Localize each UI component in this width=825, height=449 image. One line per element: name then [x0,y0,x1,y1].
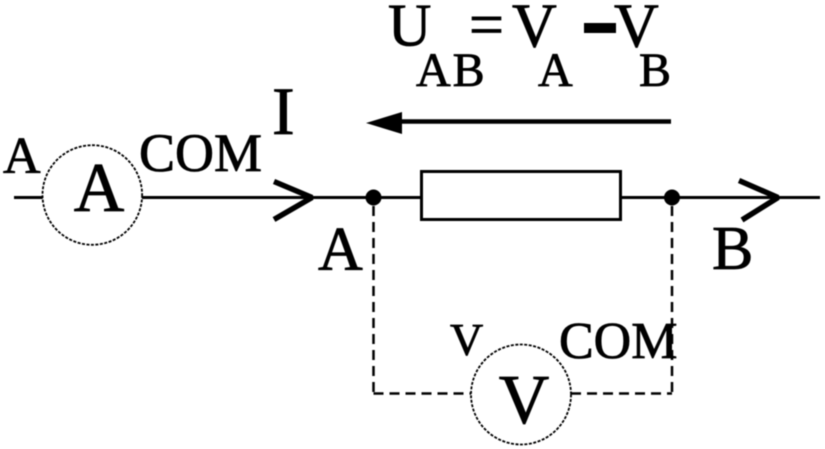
svg-text:COM: COM [139,123,262,183]
resistor R [422,172,621,220]
svg-text:A: A [74,150,125,227]
ammeter A1 circle [43,145,143,245]
svg-text:I: I [272,73,295,149]
svg-text:V: V [499,362,550,439]
svg-text:COM: COM [559,313,677,370]
svg-text:B: B [639,44,671,97]
svg-text:B: B [712,215,753,283]
voltmeter V1 circle [471,345,571,445]
current direction arrow shaft [380,119,671,124]
svg-text:A: A [318,216,363,284]
dashed lead to voltmeter left [374,392,472,395]
dashed lead from voltmeter right [571,392,672,395]
dashed lead from node A down [372,206,375,394]
dashed lead from node B down [671,206,674,394]
svg-text:V: V [450,314,483,365]
formula minus sign [584,23,616,33]
wire arrowhead chevron left [274,182,312,220]
wire left stub [14,196,43,199]
current direction arrowhead [366,112,402,134]
node A junction dot [366,190,382,206]
svg-text:=: = [469,0,504,60]
wire arrowhead chevron right [739,181,778,221]
svg-text:A: A [538,44,573,97]
node B junction dot [664,190,680,206]
svg-text:A: A [3,128,41,185]
wire main horizontal [142,196,820,199]
